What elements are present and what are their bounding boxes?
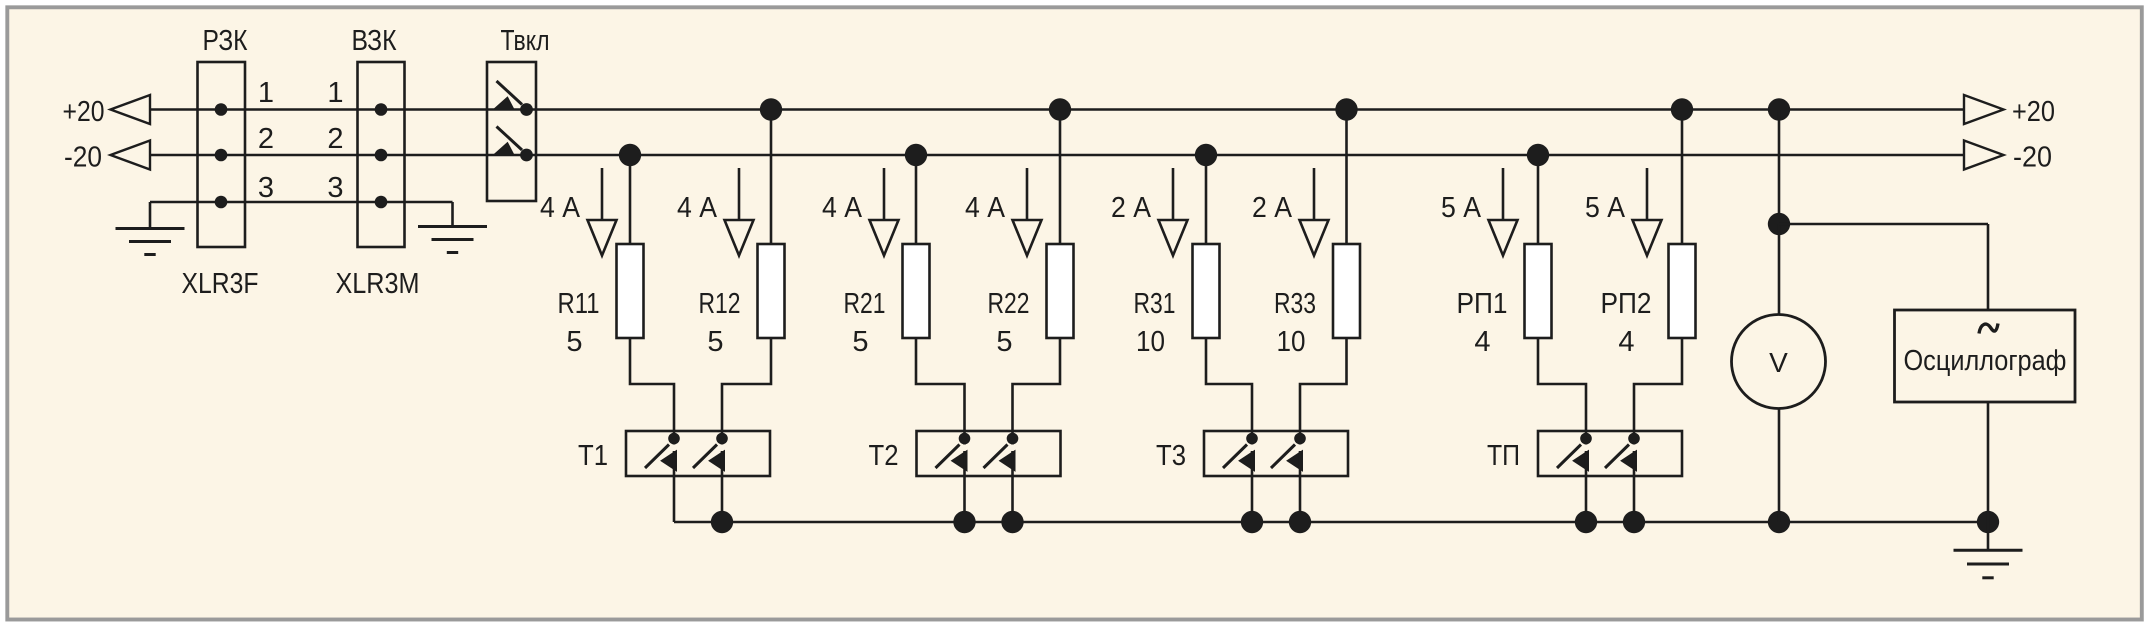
svg-text:ТП: ТП [1487, 440, 1520, 472]
svg-text:ВЗК: ВЗК [352, 25, 397, 57]
svg-text:4 А: 4 А [965, 192, 1006, 224]
svg-text:+20: +20 [2012, 96, 2055, 128]
svg-text:5: 5 [707, 326, 723, 358]
svg-text:+20: +20 [63, 96, 105, 128]
svg-text:R11: R11 [558, 288, 600, 320]
svg-text:V: V [1769, 347, 1788, 378]
svg-text:-20: -20 [2013, 142, 2052, 174]
svg-text:4 А: 4 А [822, 192, 863, 224]
svg-text:Твкл: Твкл [501, 25, 550, 57]
svg-text:5: 5 [566, 326, 582, 358]
svg-text:XLR3F: XLR3F [182, 268, 259, 300]
svg-text:R33: R33 [1274, 288, 1316, 320]
svg-text:3: 3 [327, 172, 343, 204]
svg-text:1: 1 [258, 77, 274, 109]
svg-text:РП1: РП1 [1457, 288, 1508, 320]
svg-text:4: 4 [1618, 326, 1634, 358]
svg-text:3: 3 [258, 172, 274, 204]
svg-text:XLR3M: XLR3M [336, 268, 420, 300]
svg-text:2 А: 2 А [1252, 192, 1293, 224]
svg-text:5: 5 [852, 326, 868, 358]
svg-text:Осциллограф: Осциллограф [1904, 345, 2067, 377]
svg-text:5 А: 5 А [1441, 192, 1482, 224]
svg-text:5 А: 5 А [1585, 192, 1626, 224]
svg-text:R21: R21 [844, 288, 886, 320]
svg-text:2 А: 2 А [1111, 192, 1152, 224]
svg-text:-20: -20 [64, 142, 102, 174]
svg-text:РП2: РП2 [1601, 288, 1652, 320]
svg-text:1: 1 [327, 77, 343, 109]
svg-text:R22: R22 [988, 288, 1030, 320]
svg-text:4 А: 4 А [540, 192, 581, 224]
svg-text:R31: R31 [1134, 288, 1176, 320]
svg-text:10: 10 [1136, 326, 1165, 358]
svg-text:РЗК: РЗК [203, 25, 248, 57]
svg-text:Т1: Т1 [578, 440, 608, 472]
svg-text:2: 2 [327, 123, 343, 155]
svg-text:2: 2 [258, 123, 274, 155]
svg-text:5: 5 [996, 326, 1012, 358]
svg-text:Т2: Т2 [869, 440, 899, 472]
svg-text:Т3: Т3 [1156, 440, 1186, 472]
svg-text:4: 4 [1474, 326, 1490, 358]
svg-text:4 А: 4 А [677, 192, 718, 224]
svg-text:10: 10 [1277, 326, 1306, 358]
svg-text:R12: R12 [699, 288, 741, 320]
